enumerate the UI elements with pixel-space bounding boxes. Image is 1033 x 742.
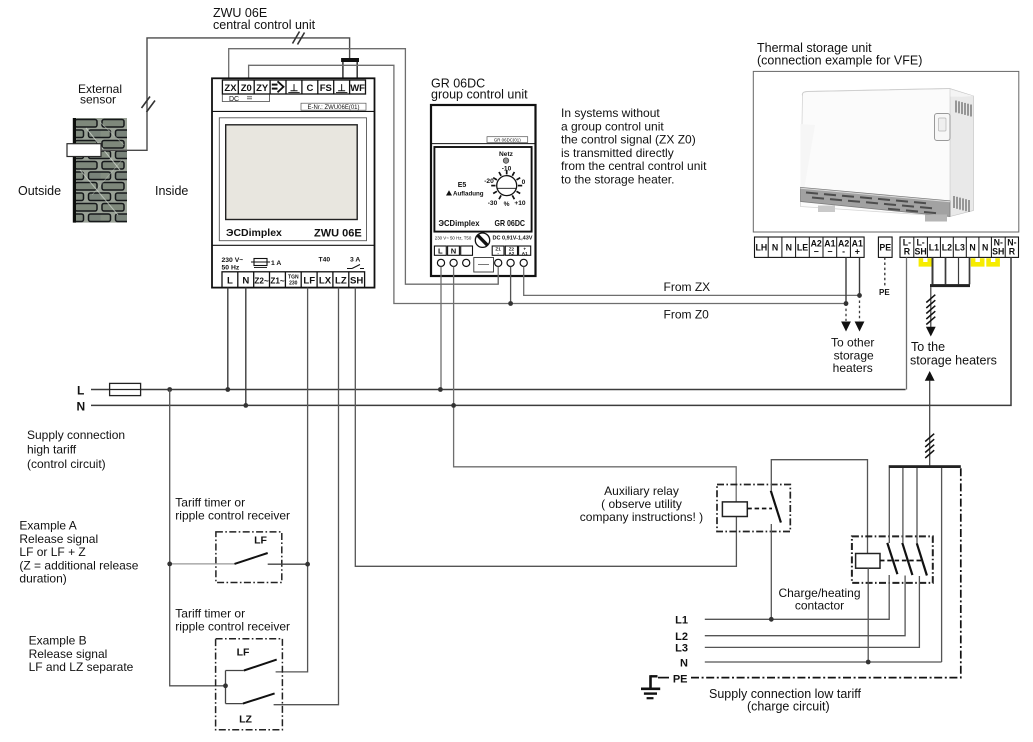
junction N x GR N [451, 403, 456, 408]
storage heater drawing [801, 89, 974, 222]
svg-text:WF: WF [350, 83, 365, 94]
svg-text:N: N [242, 276, 249, 287]
wire GR N drop and branch to aux coil [454, 267, 737, 502]
labels L1 L2 L3 N PE [673, 614, 688, 685]
svg-text:(control circuit): (control circuit) [27, 457, 106, 471]
GR adjustment screw [475, 233, 489, 247]
svg-text:T40: T40 [319, 257, 331, 264]
GR terminal screws [437, 259, 527, 266]
switch LF in box A [170, 535, 308, 565]
svg-text:duration): duration) [19, 572, 66, 586]
wire contactor coil bottom to N [867, 568, 869, 662]
svg-text:N: N [786, 242, 792, 252]
wire GR L drop [440, 267, 442, 390]
svg-text:LF and LZ separate: LF and LZ separate [29, 660, 134, 674]
wire L1 L2 L3 N to cable bar [933, 257, 970, 284]
E5 Aufladung label [446, 182, 484, 198]
wire N riser to cable busbar [941, 468, 943, 662]
yellow link N to N-SH [989, 258, 998, 264]
charge/heating contactor K2 [852, 536, 933, 583]
svg-text:L: L [438, 247, 443, 256]
svg-text:-20: -20 [484, 178, 494, 185]
junction dot A right [305, 562, 310, 567]
svg-text:DC 0,91V-1,43V: DC 0,91V-1,43V [493, 236, 534, 242]
wire LZ drop from ZWU [274, 288, 339, 705]
svg-text:group control unit: group control unit [431, 88, 528, 102]
svg-text:Outside: Outside [18, 184, 61, 198]
svg-text:Example B: Example B [29, 634, 87, 648]
switch LZ in box B [226, 671, 275, 726]
wire L-R drop to L line [906, 257, 908, 389]
svg-text:C: C [306, 83, 313, 94]
pin icon arrow in 4th cell [272, 81, 284, 92]
junction A2 x From Z0 [844, 301, 849, 306]
svg-text:LZ: LZ [335, 276, 347, 287]
label To other storage heaters [831, 336, 874, 376]
junction GR A2 x From Z0 [508, 301, 513, 306]
sensor labels [18, 82, 188, 198]
svg-text:0: 0 [522, 179, 526, 186]
wire sensor horizontal to riser [101, 38, 350, 150]
junction L1 x aux contact [769, 617, 774, 622]
cable gather bar top [930, 284, 970, 287]
wire aux contact bottom to L1 [770, 524, 772, 619]
svg-text:L2: L2 [942, 242, 952, 252]
ZWU info row: 230V fuse T40 3A [222, 257, 365, 272]
svg-text:to the storage heater.: to the storage heater. [561, 173, 674, 187]
svg-text:N: N [77, 400, 86, 414]
svg-text:N: N [680, 657, 688, 669]
terminal strip labels LH N N LE A2 A1 PE L-R L-SH L1 L2 L3 N N-SH N-R [756, 237, 1017, 256]
wire SH drop and run to aux relay coil [355, 288, 736, 567]
E-Nr label ZWU [301, 103, 366, 111]
svg-text:is transmitted directly: is transmitted directly [561, 146, 674, 160]
ZWU bottom terminal row L N Z2 Z1 TGN LF LX LZ SH [222, 272, 365, 288]
svg-text:SH: SH [350, 276, 363, 287]
svg-text:ЭCDimplex: ЭCDimplex [439, 218, 480, 228]
label To the storage heaters [910, 340, 997, 368]
svg-text:FS: FS [320, 83, 332, 94]
svg-text:ripple control receiver: ripple control receiver [175, 620, 290, 634]
GR DIN rail clip [474, 258, 494, 273]
wire L3 line [705, 576, 920, 647]
svg-text:L: L [77, 384, 84, 398]
GR terminal label boxes [434, 246, 530, 255]
thermal storage unit enclosure box [753, 71, 1019, 232]
arrow to other storage heaters A2 [841, 322, 851, 332]
svg-text:To the: To the [911, 340, 945, 354]
svg-text:L1: L1 [675, 614, 688, 626]
label supply high tariff [27, 428, 125, 471]
svg-text:Z2~: Z2~ [254, 276, 269, 285]
svg-text:230 V~: 230 V~ [222, 257, 244, 264]
GR ratings strip [435, 236, 533, 242]
svg-text:Tariff timer or: Tariff timer or [175, 607, 245, 621]
fuse on L [110, 383, 141, 395]
svg-text:SH: SH [992, 247, 1004, 257]
ZWU ground pin underlines [288, 92, 347, 94]
svg-text:A1: A1 [522, 251, 528, 256]
svg-text:L3: L3 [955, 242, 965, 252]
svg-text:Aufladung: Aufladung [453, 191, 484, 198]
svg-text:To other: To other [831, 336, 874, 350]
side vents [954, 101, 971, 213]
svg-text:-10: -10 [502, 166, 512, 173]
svg-text:LF: LF [237, 647, 250, 659]
svg-text:( observe utility: ( observe utility [601, 497, 682, 511]
wire ZWU L drop [227, 288, 229, 390]
terminal strip cell dividers [768, 237, 1005, 257]
svg-text:L3: L3 [675, 643, 688, 655]
GR 06DC group control unit body [431, 105, 536, 276]
svg-text:A2: A2 [508, 251, 514, 256]
svg-text:high tariff: high tariff [27, 443, 77, 457]
yellow link N to N [973, 258, 982, 264]
heater grille [801, 187, 951, 216]
svg-text:(connection example for VFE): (connection example for VFE) [757, 54, 922, 68]
svg-text:ZY: ZY [256, 83, 269, 94]
svg-text:Z0: Z0 [241, 83, 252, 94]
svg-text:from the central control unit: from the central control unit [561, 159, 707, 173]
junction dot B common [223, 683, 228, 688]
Netz LED [499, 151, 514, 163]
svg-text:R: R [904, 247, 911, 257]
DC bracket under ZX Z0 ZY [222, 95, 269, 104]
svg-text:230: 230 [289, 281, 298, 287]
cable break mark on top horizontal wire [293, 32, 305, 45]
svg-text:ZWU 06E: ZWU 06E [314, 228, 362, 240]
label tariff timer A [175, 496, 290, 523]
svg-text:GR 06DC: GR 06DC [495, 219, 526, 228]
auxiliary relay K1 [717, 485, 790, 532]
svg-text:-: - [842, 246, 845, 256]
svg-text:contactor: contactor [795, 599, 844, 613]
svg-text:PE: PE [879, 288, 890, 297]
feet [818, 206, 835, 213]
wire storage A1 drop [859, 257, 861, 321]
svg-text:PE: PE [673, 673, 688, 685]
svg-text:In systems without: In systems without [561, 106, 660, 120]
external sensor wall [73, 118, 127, 223]
wire N bottom line [705, 661, 942, 663]
svg-text:50 Hz: 50 Hz [222, 265, 240, 272]
ZWU top terminal row ZX Z0 ZY .. WF [222, 80, 365, 94]
svg-text:LE: LE [797, 242, 808, 252]
tariff timer box B [216, 639, 283, 730]
label example A [19, 519, 138, 586]
GR logo row [439, 218, 526, 228]
wire ZWU N drop [245, 288, 247, 406]
svg-text:−: − [827, 246, 832, 256]
svg-text:L1: L1 [929, 242, 939, 252]
label tariff timer B [175, 607, 290, 634]
svg-text:−: − [814, 246, 819, 256]
svg-text:L: L [227, 276, 233, 287]
junction L x ZWU L [225, 387, 230, 392]
junction N x ZWU N [243, 403, 248, 408]
control switch panel [935, 114, 951, 141]
svg-text:N: N [772, 242, 778, 252]
svg-text:Z1~: Z1~ [270, 276, 285, 285]
svg-text:DC: DC [229, 96, 239, 103]
svg-text:+10: +10 [514, 200, 526, 207]
wire contactor contact tops from busbar [889, 468, 917, 543]
svg-text:ZX: ZX [224, 83, 237, 94]
wire ZX net: ZWU ZX terminal up/over/down to GR Z1 [229, 49, 499, 285]
titles [213, 6, 922, 102]
wire Z0 net: ZWU Z0 terminal up/over/down, From Z0 line to A2 [249, 65, 846, 303]
svg-text:N: N [982, 242, 988, 252]
junction N x coil [866, 660, 871, 665]
svg-text:PE: PE [879, 242, 891, 252]
label charge/heating contactor [778, 586, 860, 613]
ZWU display screen [226, 125, 358, 220]
svg-text:ripple control receiver: ripple control receiver [175, 509, 290, 523]
wire GR Z1 drop [497, 267, 499, 285]
svg-text:ЭCDimplex: ЭCDimplex [226, 227, 282, 239]
svg-text:Tariff timer or: Tariff timer or [175, 496, 245, 510]
wire GR A2 drop to From Z0 [510, 267, 512, 304]
svg-text:Auxiliary relay: Auxiliary relay [604, 484, 679, 498]
svg-text:Supply connection: Supply connection [27, 428, 125, 442]
svg-text:E-Nr.: ZWU06E(01): E-Nr.: ZWU06E(01) [307, 105, 359, 111]
svg-text:storage heaters: storage heaters [910, 354, 997, 368]
wire L1 line [705, 575, 889, 619]
cable break mark on sensor riser [142, 97, 156, 113]
tariff timer box A [216, 532, 282, 583]
ZWU logo and model [226, 227, 362, 240]
svg-text:sensor: sensor [80, 93, 116, 107]
arrow to other storage heaters A1 [855, 322, 865, 332]
svg-text:central control unit: central control unit [213, 18, 316, 32]
wire LF drop from ZWU [276, 288, 308, 672]
svg-text:R: R [1009, 247, 1016, 257]
note text block [561, 106, 707, 187]
svg-text:(charge circuit): (charge circuit) [747, 700, 830, 714]
charge setting dial [484, 166, 526, 208]
svg-text:Release signal: Release signal [29, 647, 108, 661]
wire storage A2 drop [845, 257, 847, 321]
svg-text:From Z0: From Z0 [664, 308, 710, 322]
svg-text:-30: -30 [488, 200, 498, 207]
storage heater terminal strip [755, 237, 1019, 257]
busbar above contactor [889, 465, 961, 468]
GR terminal labels L N Z1 Z2 A2 A1 [438, 247, 528, 256]
E-Nr label GR [487, 137, 528, 143]
svg-text:LZ: LZ [239, 714, 252, 726]
svg-text:the control signal (ZX Z0): the control signal (ZX Z0) [561, 133, 696, 147]
svg-text:L2: L2 [675, 631, 688, 643]
svg-text:230 V~ 50 Hz, T50: 230 V~ 50 Hz, T50 [435, 236, 472, 242]
svg-text:Release signal: Release signal [19, 532, 98, 546]
ZWU 06E central control unit body [212, 78, 375, 287]
svg-text:LH: LH [756, 242, 768, 252]
wire L2 line [705, 576, 905, 636]
svg-text:From ZX: From ZX [664, 280, 711, 294]
svg-text:Inside: Inside [155, 184, 188, 198]
svg-text:company instructions! ): company instructions! ) [580, 510, 703, 524]
svg-text:N: N [969, 242, 975, 252]
external sensor [67, 144, 101, 157]
svg-text:3 A: 3 A [350, 257, 360, 264]
cable up from busbar with core marks [925, 371, 935, 465]
svg-text:Netz: Netz [499, 151, 514, 158]
svg-text:+: + [855, 246, 860, 256]
ZWU bottom terminal labels L N Z2 Z1 LF LX LZ SH [227, 275, 363, 287]
terminal clamp over WF [341, 58, 359, 80]
svg-text:a group control unit: a group control unit [561, 119, 664, 133]
wire From ZX: GR A1 to storage A1 [524, 267, 860, 296]
switch LF in box B [226, 647, 277, 671]
svg-text:(Z = additional release: (Z = additional release [19, 558, 138, 572]
wire storage PE stub [884, 257, 886, 285]
svg-text:Example A: Example A [19, 519, 76, 533]
svg-text:%: % [504, 201, 510, 208]
supply N line [91, 257, 1011, 405]
wire aux contact top to contactor coil [771, 460, 867, 554]
svg-text:heaters: heaters [833, 361, 873, 375]
junction A1 x From ZX [857, 293, 862, 298]
svg-text:1 A: 1 A [271, 260, 281, 267]
svg-text:LF: LF [254, 535, 267, 547]
ZWU top terminal labels ZX Z0 ZY C FS WF [224, 83, 365, 94]
junction L x GR L [438, 387, 443, 392]
PE dash-dot line and riser [658, 468, 961, 678]
label example B [29, 634, 134, 675]
ground symbol [641, 675, 660, 698]
svg-text:GR 06DC(01): GR 06DC(01) [494, 137, 521, 142]
supply L line with fuse [91, 389, 906, 391]
svg-text:SH: SH [914, 247, 926, 257]
svg-text:LF: LF [303, 276, 315, 287]
junction dot A left riser [167, 562, 172, 567]
wire left release riser [170, 390, 226, 686]
svg-text:LX: LX [319, 276, 332, 287]
label auxiliary relay [580, 484, 703, 524]
junction L x release riser [167, 387, 172, 392]
svg-text:E5: E5 [458, 182, 467, 189]
label supply low tariff [709, 687, 861, 714]
yellow link L-SH to L1 [921, 258, 930, 264]
svg-text:N: N [451, 247, 456, 256]
cable down to storage heaters with core marks [926, 287, 936, 336]
svg-text:LF or LF + Z: LF or LF + Z [19, 545, 85, 559]
